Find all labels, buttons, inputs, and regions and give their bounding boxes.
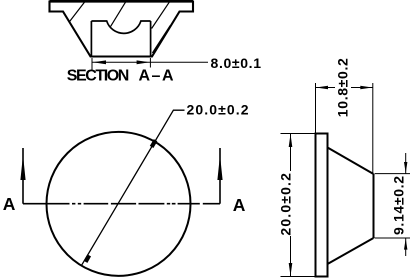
arrowhead 20.0 bottom xyxy=(289,263,293,276)
svg-text:A: A xyxy=(233,195,246,215)
left section arrow stem xyxy=(22,148,24,204)
right section arrowhead xyxy=(217,155,222,180)
svg-text:9.14±0.2: 9.14±0.2 xyxy=(391,176,407,235)
svg-text:SECTION: SECTION xyxy=(67,67,130,84)
svg-text:20.0±0.2: 20.0±0.2 xyxy=(187,102,249,118)
hatch line 1 xyxy=(69,2,84,22)
svg-text:8.0±0.1: 8.0±0.1 xyxy=(211,55,262,71)
extension line right of 8.0 dim xyxy=(149,58,151,68)
extension line 10.8 right xyxy=(372,83,374,174)
arrowhead 10.8 right xyxy=(360,86,372,90)
flange rectangle xyxy=(316,134,328,277)
right section arrow stem xyxy=(219,148,221,204)
hatch line 3 xyxy=(152,2,170,29)
extension line 10.8 left xyxy=(315,83,317,134)
hatch line 2 xyxy=(111,2,126,27)
dim line 9.14 below xyxy=(405,238,407,256)
arrowhead right of 8.0 dim xyxy=(137,60,150,64)
arrowhead 9.14 bottom (points up) xyxy=(404,239,407,250)
diameter arrow dot lower xyxy=(86,255,90,262)
extension line left of 8.0 dim xyxy=(91,58,93,70)
extension line 9.14 top xyxy=(375,173,411,175)
cone top slant xyxy=(328,148,374,175)
cavity left wall xyxy=(90,21,92,57)
circle outline xyxy=(47,132,191,276)
section top edge (thicker) xyxy=(50,0,194,3)
dim line 9.14 above xyxy=(405,153,407,174)
dim line 20.0 bottom segment xyxy=(290,236,292,277)
svg-text:A: A xyxy=(3,194,16,214)
arrowhead 10.8 left xyxy=(316,86,328,90)
cutting line A-A right solid xyxy=(203,203,220,205)
extension line 20.0 bottom xyxy=(281,276,316,278)
hatch line 4 xyxy=(152,26,170,54)
svg-text:10.8±0.2: 10.8±0.2 xyxy=(335,58,351,117)
cutting line A-A centre-line dashes xyxy=(47,203,200,205)
arrowhead 9.14 top (points down) xyxy=(404,162,407,173)
diameter dimension diagonal xyxy=(81,110,184,265)
dimension/leader line 8.0 xyxy=(92,61,208,63)
svg-text:20.0±0.2: 20.0±0.2 xyxy=(278,173,294,236)
diameter arrow dot upper xyxy=(152,140,156,147)
dim line 10.8 left segment xyxy=(316,87,336,89)
arrowhead left of 8.0 dim xyxy=(93,60,106,64)
extension line 20.0 top xyxy=(281,133,316,135)
cavity right wall xyxy=(150,21,152,57)
cutting line A-A left solid xyxy=(23,203,47,205)
extension line 9.14 bottom xyxy=(375,237,411,239)
section outline xyxy=(50,2,194,57)
left section arrowhead xyxy=(20,155,25,180)
cone tip edge xyxy=(373,174,375,238)
dim line 10.8 right segment xyxy=(351,87,373,89)
svg-text:A–A: A–A xyxy=(139,67,174,84)
cone bottom slant xyxy=(328,238,374,264)
cavity top and dome xyxy=(91,21,150,33)
dim line 20.0 top segment xyxy=(290,134,292,172)
arrowhead 20.0 top xyxy=(289,134,293,147)
